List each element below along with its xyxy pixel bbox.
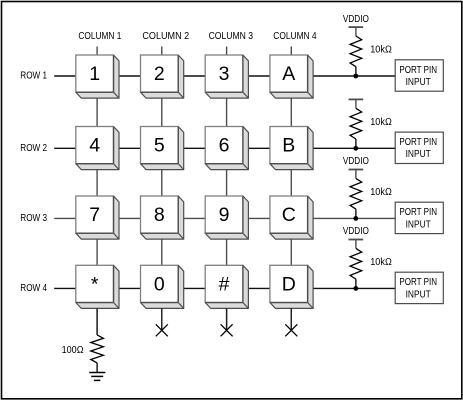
no-connect X (column 4) bbox=[285, 324, 297, 336]
key 9 (switch row 3 col 3) bbox=[205, 196, 248, 239]
key B (switch row 2 col 4) bbox=[270, 127, 313, 170]
wire stub below bottom key col 2 bbox=[161, 308, 163, 330]
svg-text:ROW 3: ROW 3 bbox=[20, 213, 47, 224]
key 1 (switch row 1 col 1) bbox=[76, 55, 119, 98]
svg-text:PORT PIN: PORT PIN bbox=[399, 137, 437, 148]
svg-text:100Ω: 100Ω bbox=[62, 345, 84, 356]
svg-text:PORT PIN: PORT PIN bbox=[399, 207, 437, 218]
svg-text:1: 1 bbox=[89, 63, 100, 85]
key 8 (switch row 3 col 2) bbox=[141, 196, 184, 239]
key 0 (switch row 4 col 2) bbox=[141, 265, 184, 308]
svg-text:ROW 2: ROW 2 bbox=[20, 143, 47, 154]
svg-text:INPUT: INPUT bbox=[406, 149, 431, 160]
resistor 10k&#937; pull-up (row 2) bbox=[350, 108, 392, 148]
key 4 (switch row 2 col 1) bbox=[76, 127, 119, 170]
svg-text:ROW 4: ROW 4 bbox=[20, 283, 47, 294]
wire row 4 horizontal bbox=[54, 287, 395, 289]
wire stub below bottom key col 1 bbox=[96, 308, 98, 335]
junction node row 2 bbox=[353, 146, 358, 151]
svg-text:D: D bbox=[282, 273, 296, 295]
svg-text:10kΩ: 10kΩ bbox=[370, 117, 392, 128]
power VDDIO (row 4) bbox=[343, 226, 369, 248]
svg-text:INPUT: INPUT bbox=[406, 219, 431, 230]
port pin input box (row 3) bbox=[395, 202, 443, 233]
svg-text:#: # bbox=[219, 273, 230, 295]
svg-text:COLUMN 1: COLUMN 1 bbox=[78, 31, 121, 42]
key 5 (switch row 2 col 2) bbox=[141, 127, 184, 170]
resistor 10k&#937; pull-up (row 4) bbox=[350, 248, 392, 288]
no-connect X (column 3) bbox=[221, 324, 233, 336]
svg-text:2: 2 bbox=[154, 63, 165, 85]
key 6 (switch row 2 col 3) bbox=[205, 127, 248, 170]
key # (switch row 4 col 3) bbox=[205, 265, 248, 308]
svg-text:9: 9 bbox=[219, 204, 230, 226]
power VDDIO (row 3) bbox=[343, 156, 369, 178]
key C (switch row 3 col 4) bbox=[270, 196, 313, 239]
port pin input box (row 4) bbox=[395, 272, 443, 303]
svg-text:7: 7 bbox=[89, 204, 100, 226]
junction node row 4 bbox=[353, 286, 358, 291]
ground bbox=[89, 373, 105, 381]
key * (switch row 4 col 1) bbox=[76, 265, 119, 308]
svg-text:ROW 1: ROW 1 bbox=[20, 71, 47, 82]
junction node row 3 bbox=[353, 216, 358, 221]
svg-text:A: A bbox=[282, 63, 295, 85]
svg-text:VDDIO: VDDIO bbox=[343, 226, 369, 237]
svg-text:B: B bbox=[282, 135, 295, 157]
svg-text:5: 5 bbox=[154, 135, 165, 157]
key D (switch row 4 col 4) bbox=[270, 265, 313, 308]
key 2 (switch row 1 col 2) bbox=[141, 55, 184, 98]
power VDDIO (row 1) bbox=[343, 14, 369, 36]
wire stub below bottom key col 4 bbox=[290, 308, 292, 330]
svg-text:6: 6 bbox=[219, 135, 230, 157]
wire row 1 horizontal bbox=[54, 75, 395, 77]
svg-text:C: C bbox=[282, 204, 296, 226]
svg-text:PORT PIN: PORT PIN bbox=[399, 65, 437, 76]
wire stub below bottom key col 3 bbox=[226, 308, 228, 330]
wire column 2 vertical bbox=[161, 47, 163, 331]
resistor 10k&#937; pull-up (row 3) bbox=[350, 178, 392, 218]
key 3 (switch row 1 col 3) bbox=[205, 55, 248, 98]
no-connect X (column 2) bbox=[156, 324, 168, 336]
wire column 4 vertical bbox=[290, 47, 292, 331]
svg-text:10kΩ: 10kΩ bbox=[370, 257, 392, 268]
key 7 (switch row 3 col 1) bbox=[76, 196, 119, 239]
svg-text:VDDIO: VDDIO bbox=[343, 14, 369, 25]
svg-text:0: 0 bbox=[154, 273, 165, 295]
svg-text:VDDIO: VDDIO bbox=[343, 156, 369, 167]
port pin input box (row 2) bbox=[395, 132, 443, 163]
svg-text:4: 4 bbox=[89, 135, 100, 157]
resistor 100&#937; (column 1 to ground) bbox=[62, 335, 104, 372]
svg-text:3: 3 bbox=[219, 63, 230, 85]
svg-text:8: 8 bbox=[154, 204, 165, 226]
port pin input box (row 1) bbox=[395, 60, 443, 91]
wire row 2 horizontal bbox=[54, 147, 395, 149]
svg-text:10kΩ: 10kΩ bbox=[370, 187, 392, 198]
wire column 3 vertical bbox=[226, 47, 228, 331]
svg-text:COLUMN 4: COLUMN 4 bbox=[273, 31, 317, 42]
junction node row 1 bbox=[353, 74, 358, 79]
power VDDIO (row 2) bbox=[349, 99, 364, 108]
resistor 10k&#937; pull-up (row 1) bbox=[350, 36, 392, 76]
svg-text:*: * bbox=[91, 273, 99, 295]
svg-text:10kΩ: 10kΩ bbox=[370, 45, 392, 56]
svg-text:INPUT: INPUT bbox=[406, 77, 431, 88]
svg-text:COLUMN 2: COLUMN 2 bbox=[142, 31, 189, 42]
svg-text:INPUT: INPUT bbox=[406, 289, 431, 300]
wire row 3 horizontal bbox=[54, 217, 395, 219]
wire column 1 vertical bbox=[96, 47, 98, 335]
key A (switch row 1 col 4) bbox=[270, 55, 313, 98]
svg-text:PORT PIN: PORT PIN bbox=[399, 277, 437, 288]
svg-text:COLUMN 3: COLUMN 3 bbox=[209, 31, 254, 42]
